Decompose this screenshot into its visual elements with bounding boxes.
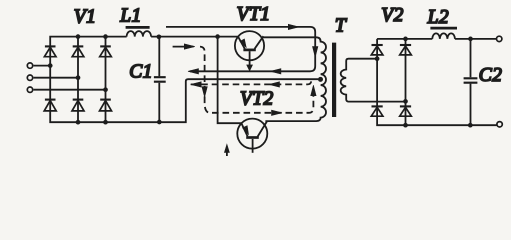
junction (76, 75, 81, 80)
svg-text:V1: V1 (74, 7, 96, 28)
node output terminal - (497, 122, 502, 127)
diode V1-3 bottom (100, 99, 111, 101)
wire (34, 65, 51, 67)
junction (48, 63, 53, 68)
arrow (191, 82, 202, 87)
wire (50, 37, 318, 123)
node input terminal 1 (27, 63, 32, 68)
diode V2-1 top (372, 44, 383, 46)
junction (103, 87, 108, 92)
node input terminal 2 (27, 75, 32, 80)
diode V2-2 bottom (400, 105, 411, 107)
svg-text:L1: L1 (119, 6, 141, 27)
arrow (311, 85, 316, 96)
svg-text:C2: C2 (479, 65, 503, 86)
wire (34, 89, 106, 91)
wire (77, 37, 79, 123)
junction (403, 123, 408, 128)
svg-text:VT2: VT2 (240, 88, 274, 109)
wire (218, 37, 242, 124)
diode V2-2 top (400, 44, 411, 46)
capacitor C2 (470, 39, 472, 125)
diode V1-1 top (45, 45, 56, 47)
svg-text:T: T (335, 15, 347, 36)
wire (34, 77, 78, 79)
junction (375, 56, 380, 61)
arrow (270, 69, 281, 74)
return path dashed (191, 80, 312, 84)
arrow (202, 87, 207, 98)
svg-text:C1: C1 (129, 61, 153, 82)
core of L1 (126, 26, 150, 29)
junction (103, 120, 108, 125)
svg-text:V2: V2 (381, 5, 403, 26)
junction (215, 34, 220, 39)
svg-text:VT1: VT1 (237, 4, 271, 25)
arrow (313, 47, 318, 58)
junction center tap (318, 77, 323, 82)
arrow (188, 69, 199, 74)
junction (76, 120, 81, 125)
transistor VT2 (237, 119, 267, 149)
junction (157, 34, 162, 39)
transformer T primary (263, 37, 326, 121)
wire (151, 36, 238, 38)
inductor L2 (432, 33, 455, 39)
arrow (184, 44, 195, 49)
base drive arrow (224, 144, 229, 152)
junction (468, 37, 473, 42)
wire (377, 39, 497, 125)
wire (405, 39, 407, 125)
junction (76, 34, 81, 39)
transistor VT1 (235, 31, 264, 60)
junction (103, 34, 108, 39)
core of L2 (430, 27, 457, 30)
core of T (332, 43, 336, 117)
node input terminal 3 (27, 87, 32, 92)
arrow (288, 24, 299, 29)
junction (468, 123, 473, 128)
inductor L1 (127, 31, 151, 37)
svg-text:L2: L2 (427, 7, 449, 28)
junction (403, 99, 408, 104)
diode V1-1 bottom (45, 99, 56, 101)
arrow (269, 82, 280, 87)
diode V2-1 bottom (372, 105, 383, 107)
current path loop 2 dashed (200, 47, 313, 113)
diode V1-2 bottom (73, 99, 84, 101)
wire (105, 37, 107, 123)
junction (157, 120, 162, 125)
current path loop 1 (166, 27, 315, 71)
transformer T secondary (341, 59, 406, 102)
arrow (272, 110, 283, 115)
current path loop 2 (173, 46, 194, 48)
capacitor C1 (158, 37, 160, 123)
node output terminal + (497, 36, 502, 41)
junction (403, 37, 408, 42)
diode V1-3 top (100, 45, 111, 47)
diode V1-2 top (73, 45, 84, 47)
